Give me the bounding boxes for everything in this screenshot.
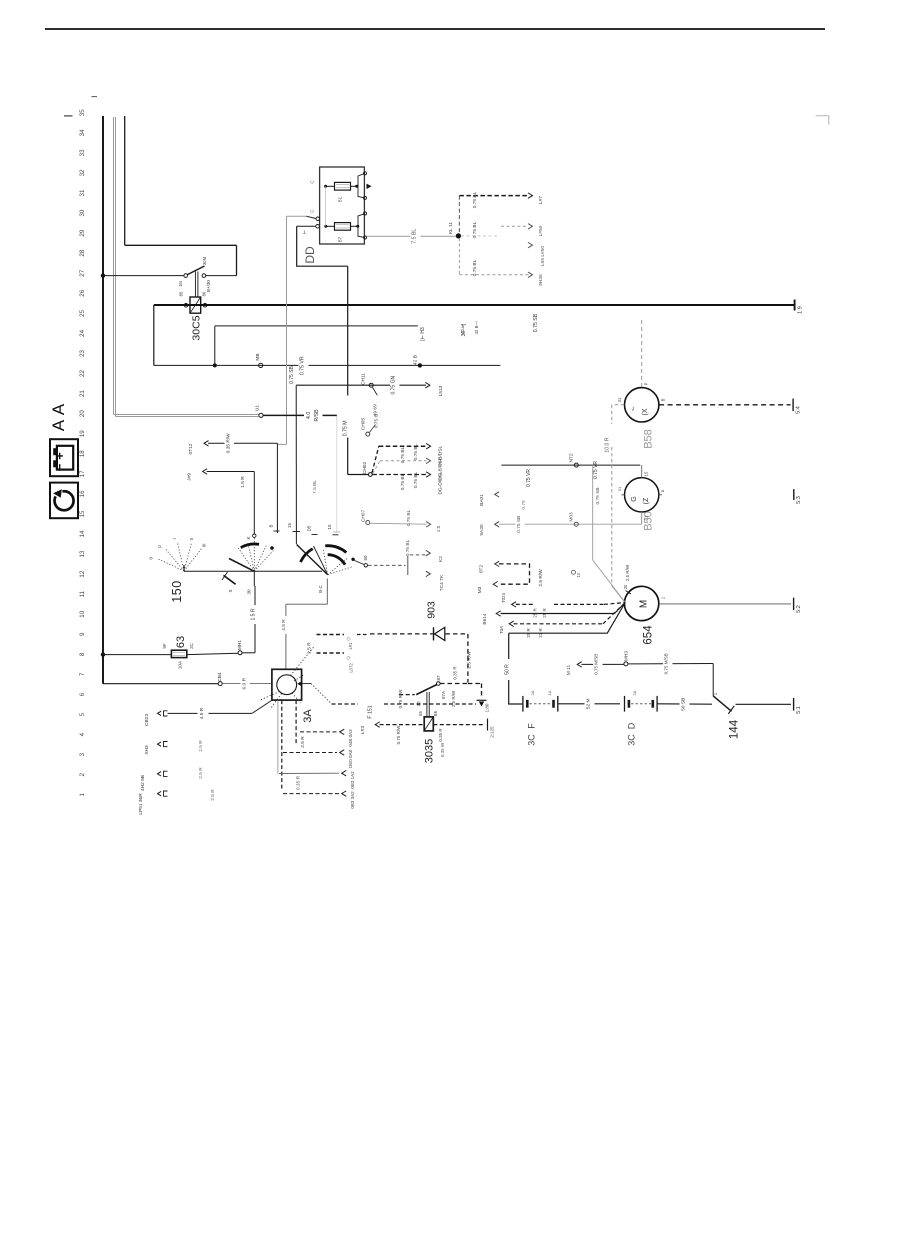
svg-text:F: F	[526, 723, 536, 729]
svg-text:0.75 BL: 0.75 BL	[413, 471, 419, 488]
svg-text:4.0: 4.0	[306, 412, 312, 419]
svg-text:2.5 R: 2.5 R	[198, 767, 204, 779]
svg-text:0.75 M/SB: 0.75 M/SB	[664, 653, 669, 674]
svg-text:50: 50	[363, 555, 368, 561]
svg-text:654: 654	[643, 625, 655, 645]
svg-text:9: 9	[79, 632, 86, 636]
svg-text:0.75 BL: 0.75 BL	[472, 259, 478, 276]
svg-text:A: A	[49, 419, 68, 431]
svg-text:13: 13	[79, 550, 86, 557]
svg-text:23: 23	[79, 349, 86, 356]
svg-text:CH07: CH07	[361, 510, 367, 523]
svg-text:S: S	[228, 589, 233, 592]
svg-text:30C5: 30C5	[191, 315, 203, 340]
svg-text:0.75 VR: 0.75 VR	[593, 461, 599, 479]
svg-text:1: 1	[79, 793, 86, 797]
svg-text:31: 31	[644, 515, 649, 520]
svg-text:M: M	[639, 600, 650, 608]
svg-text:25 R: 25 R	[533, 608, 538, 618]
svg-text:26: 26	[79, 289, 86, 296]
svg-text:4.5 R: 4.5 R	[199, 707, 205, 719]
svg-text:30: 30	[623, 584, 628, 589]
svg-text:DD: DD	[303, 246, 317, 264]
svg-text:51: 51	[338, 197, 344, 203]
svg-text:0.75 VR: 0.75 VR	[526, 469, 532, 487]
svg-text:5: 5	[79, 712, 86, 716]
svg-text:0.35 R: 0.35 R	[453, 666, 458, 680]
svg-text:3C: 3C	[626, 734, 636, 746]
svg-text:CB4: CB4	[217, 672, 223, 682]
svg-text:10: 10	[79, 610, 86, 617]
svg-text:〈〉: 〈〉	[346, 654, 351, 662]
svg-text:1A: 1A	[547, 690, 552, 695]
svg-text:NT2: NT2	[569, 453, 575, 462]
svg-text:6: 6	[79, 692, 86, 696]
svg-text:U1: U1	[255, 405, 261, 411]
svg-text:TC4 TK: TC4 TK	[439, 574, 445, 591]
svg-text:14: 14	[79, 530, 86, 537]
svg-text:27: 27	[79, 269, 86, 276]
svg-text:0.75 SB: 0.75 SB	[533, 313, 539, 332]
svg-text:30: 30	[79, 209, 86, 216]
svg-text:L#3: L#3	[360, 726, 366, 734]
svg-text:22: 22	[79, 370, 86, 377]
svg-text:0.75 BL: 0.75 BL	[472, 221, 478, 238]
svg-text:[⊢ H3: [⊢ H3	[419, 327, 426, 341]
svg-text:G: G	[631, 496, 638, 501]
svg-text:KL 11: KL 11	[448, 222, 454, 234]
svg-text:31: 31	[617, 486, 622, 491]
svg-text:87: 87	[436, 675, 441, 681]
svg-text:85: 85	[179, 291, 184, 296]
svg-text:10: 10	[576, 572, 581, 577]
svg-text:903: 903	[426, 601, 438, 619]
svg-text:DE0 0A8: DE0 0A8	[348, 749, 353, 768]
svg-text:P: P	[644, 382, 649, 385]
svg-text:(X: (X	[642, 408, 649, 415]
svg-text:B: B	[661, 398, 666, 401]
svg-text:10.0 R: 10.0 R	[605, 437, 611, 453]
svg-text:3: 3	[79, 752, 86, 756]
svg-text:2.5 R/W: 2.5 R/W	[538, 569, 544, 587]
svg-text:86: 86	[202, 291, 207, 296]
svg-text:CB23: CB23	[144, 714, 150, 726]
svg-text:0.75 SB: 0.75 SB	[289, 365, 295, 383]
svg-text:1:9: 1:9	[798, 306, 804, 314]
svg-text:J#9: J#9	[187, 473, 193, 481]
svg-text:2.5 R/W: 2.5 R/W	[625, 564, 630, 581]
svg-text:2:125: 2:125	[490, 726, 495, 738]
svg-text:2.5 R/W: 2.5 R/W	[467, 651, 473, 669]
svg-text:29: 29	[79, 229, 86, 236]
svg-text:M03: M03	[569, 512, 575, 522]
svg-text:5:4: 5:4	[796, 406, 802, 414]
svg-text:0.75 M/SB: 0.75 M/SB	[594, 654, 599, 675]
svg-text:20: 20	[79, 410, 86, 417]
svg-text:0.35 W: 0.35 W	[440, 742, 445, 757]
svg-text:L513: L513	[438, 385, 444, 396]
svg-text:34: 34	[79, 129, 86, 136]
svg-text:3A: 3A	[302, 709, 314, 723]
svg-text:31: 31	[617, 397, 622, 402]
svg-text:L072: L072	[349, 663, 354, 673]
svg-text:5:2: 5:2	[796, 605, 802, 613]
svg-text:42 B⊣: 42 B⊣	[474, 321, 479, 334]
svg-text:0.75 BL: 0.75 BL	[472, 191, 478, 208]
svg-text:57: 57	[338, 237, 344, 243]
svg-text:BA01: BA01	[479, 494, 485, 506]
svg-text:4: 4	[79, 732, 86, 736]
svg-text:P: P	[158, 545, 163, 548]
svg-text:2.5 R: 2.5 R	[198, 740, 204, 752]
svg-text:XH3: XH3	[144, 745, 150, 755]
svg-text:CH05: CH05	[361, 418, 367, 431]
svg-text:L#50: L#50	[538, 225, 544, 236]
svg-text:5:1: 5:1	[796, 706, 802, 714]
svg-text:9F: 9F	[162, 643, 167, 649]
svg-text:0.75 SB: 0.75 SB	[595, 487, 601, 504]
svg-text:30M: 30M	[202, 256, 207, 265]
svg-text:B58: B58	[643, 429, 655, 449]
svg-text:32: 32	[79, 169, 86, 176]
svg-text:15: 15	[327, 524, 332, 530]
svg-text:0.75 BL: 0.75 BL	[406, 509, 412, 526]
svg-text:B: B	[660, 489, 665, 492]
svg-text:2A: 2A	[530, 690, 535, 695]
svg-text:2.5 R/W: 2.5 R/W	[451, 690, 456, 707]
svg-text:30: 30	[247, 589, 252, 595]
svg-text:B6: B6	[433, 710, 438, 716]
svg-text:CH11: CH11	[361, 373, 367, 385]
svg-text:L55 L#50: L55 L#50	[540, 246, 546, 266]
svg-text:2.5 R: 2.5 R	[210, 789, 216, 801]
svg-text:0T12: 0T12	[188, 443, 194, 454]
svg-text:87A: 87A	[441, 691, 446, 699]
svg-text:D5: D5	[307, 525, 312, 531]
svg-text:25 R: 25 R	[542, 608, 547, 618]
svg-text:T024: T024	[501, 592, 506, 603]
svg-text:II: II	[189, 538, 194, 541]
svg-text:0B3 3A2: 0B3 3A2	[350, 791, 355, 809]
svg-text:0.75 M: 0.75 M	[343, 420, 349, 436]
svg-text:⊢: ⊢	[301, 230, 308, 234]
svg-text:CH02: CH02	[362, 462, 368, 475]
svg-text:III: III	[202, 544, 207, 548]
svg-text:6.0 R: 6.0 R	[241, 677, 247, 689]
svg-text:L#1: L#1	[348, 642, 353, 650]
svg-text:35: 35	[79, 109, 86, 116]
svg-text:21: 21	[79, 390, 86, 397]
svg-text:I: I	[172, 538, 177, 539]
svg-text:0.75 VR: 0.75 VR	[300, 356, 306, 375]
svg-text:0.35 R: 0.35 R	[438, 728, 443, 742]
svg-text:−: −	[52, 463, 67, 471]
svg-text:2.5 R: 2.5 R	[307, 642, 313, 654]
svg-text:F 151: F 151	[368, 705, 374, 718]
svg-text:K2: K2	[438, 556, 444, 562]
svg-text:DG-B/DSL: DG-B/DSL	[438, 457, 444, 480]
svg-text:9H36: 9H36	[538, 274, 544, 286]
svg-text:11: 11	[79, 590, 86, 597]
svg-text:M3: M3	[477, 586, 483, 593]
svg-text:1:80: 1:80	[485, 703, 490, 712]
svg-text:5:3: 5:3	[796, 496, 802, 504]
svg-text:0.35 R/W: 0.35 R/W	[225, 433, 231, 453]
svg-text:L#7: L#7	[538, 196, 544, 204]
svg-text:7: 7	[79, 672, 86, 676]
svg-text:16: 16	[79, 490, 86, 497]
svg-text:4H2 9B: 4H2 9B	[140, 775, 146, 791]
svg-text:4.5 R: 4.5 R	[281, 619, 287, 631]
svg-text:1.5 R: 1.5 R	[250, 608, 256, 620]
svg-text:0.75 SB: 0.75 SB	[516, 516, 522, 533]
svg-text:10A: 10A	[178, 660, 184, 669]
svg-text:04B 0A3: 04B 0A3	[348, 729, 353, 747]
svg-text:2C: 2C	[189, 642, 194, 649]
svg-text:50 SB: 50 SB	[681, 698, 687, 711]
svg-text:0.75: 0.75	[521, 500, 527, 510]
svg-text:8: 8	[79, 652, 86, 656]
svg-text:2A: 2A	[632, 690, 637, 695]
svg-text:24: 24	[79, 329, 86, 336]
svg-text:15: 15	[644, 471, 649, 476]
svg-text:42 B: 42 B	[413, 355, 419, 365]
svg-text:0.75 R/W: 0.75 R/W	[398, 689, 403, 709]
svg-text:52 M: 52 M	[586, 698, 592, 709]
svg-text:0.75 R/W: 0.75 R/W	[396, 725, 401, 745]
svg-text:28: 28	[79, 249, 86, 256]
svg-text:〈〉: 〈〉	[346, 635, 351, 643]
svg-text:0.35 R: 0.35 R	[296, 775, 302, 790]
svg-text:33: 33	[79, 149, 86, 156]
svg-text:1.5 R: 1.5 R	[240, 476, 246, 488]
svg-text:K: K	[246, 536, 251, 539]
svg-text:1:5: 1:5	[436, 525, 442, 532]
svg-text:MH1: MH1	[237, 640, 243, 650]
svg-text:12: 12	[79, 570, 86, 577]
svg-text:3035: 3035	[424, 739, 436, 763]
svg-text:0.75 BL: 0.75 BL	[400, 473, 406, 490]
svg-text:0B3 1A2: 0B3 1A2	[350, 771, 355, 789]
svg-text:B: B	[269, 524, 274, 527]
svg-text:25: 25	[79, 309, 86, 316]
svg-text:63: 63	[175, 636, 187, 648]
svg-text:MB: MB	[255, 353, 261, 360]
svg-text:7.5 BL: 7.5 BL	[312, 480, 318, 494]
svg-text:D: D	[626, 722, 636, 729]
svg-text:LP51 36R: LP51 36R	[138, 793, 144, 815]
svg-text:31: 31	[79, 189, 86, 196]
svg-text:50 R: 50 R	[505, 664, 511, 675]
svg-text:15I: 15I	[178, 281, 183, 287]
svg-text:2: 2	[79, 772, 86, 776]
svg-text:T0A: T0A	[499, 626, 504, 634]
svg-text:15: 15	[79, 510, 86, 517]
svg-text:B614: B614	[482, 613, 488, 625]
svg-text:144: 144	[729, 719, 741, 739]
svg-text:B-C: B-C	[318, 584, 323, 593]
svg-text:~: ~	[629, 406, 638, 411]
svg-text:0T2: 0T2	[479, 565, 485, 574]
svg-text:150: 150	[170, 580, 184, 602]
svg-text:15: 15	[287, 523, 292, 529]
svg-text:0.75 BL: 0.75 BL	[413, 443, 419, 460]
svg-text:0.75 BL: 0.75 BL	[400, 446, 406, 463]
svg-text:9A30: 9A30	[479, 524, 485, 536]
svg-text:(Z: (Z	[643, 497, 650, 504]
svg-text:40 ⊢: 40 ⊢	[460, 324, 465, 334]
svg-text:55: 55	[418, 711, 423, 716]
svg-text:+: +	[52, 452, 67, 460]
svg-text:MH3: MH3	[624, 651, 630, 661]
svg-text:3C: 3C	[526, 734, 536, 746]
svg-text:A: A	[49, 403, 68, 415]
svg-text:2.5 R: 2.5 R	[300, 736, 306, 748]
svg-text:18: 18	[79, 450, 86, 457]
svg-text:19: 19	[79, 430, 86, 437]
svg-text:M 11: M 11	[566, 665, 572, 676]
svg-text:0.75 BL: 0.75 BL	[405, 539, 411, 556]
svg-text:B+/30: B+/30	[206, 280, 211, 292]
svg-text:R/SB: R/SB	[314, 409, 320, 422]
svg-text:0.75 GN: 0.75 GN	[391, 376, 397, 395]
svg-text:17: 17	[79, 470, 86, 477]
svg-text:7.5 BL: 7.5 BL	[412, 229, 418, 244]
